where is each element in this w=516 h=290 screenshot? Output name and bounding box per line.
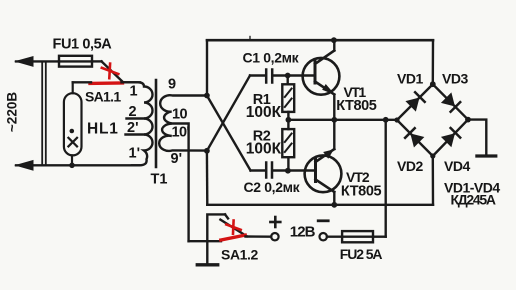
svg-text:VD1: VD1 xyxy=(397,71,423,87)
svg-text:1': 1' xyxy=(129,146,141,162)
capacitor C2 xyxy=(251,163,314,178)
node C2-R2-base junction xyxy=(285,168,291,174)
wire cross diagonal from pin9' to C1 xyxy=(207,76,250,151)
transformer T1 primary tap 2 xyxy=(127,117,145,119)
wire double vertical connector lines xyxy=(42,61,46,165)
wire SA1.2 arm to plus terminal xyxy=(246,235,272,238)
transformer T1 core xyxy=(155,80,158,167)
wire pin1 to transformer xyxy=(73,81,140,83)
terminal minus circle xyxy=(320,233,327,240)
transformer T1 secondary winding xyxy=(159,95,207,151)
switch SA1.2 red cross mark xyxy=(226,221,240,234)
switch SA1.2 contact wire xyxy=(207,214,225,263)
top rail wire xyxy=(207,39,433,42)
bottom rail wire xyxy=(207,204,433,206)
transformer T1 primary winding xyxy=(124,82,152,165)
diode bridge top rail corner down xyxy=(432,40,435,84)
svg-text:2: 2 xyxy=(129,104,137,120)
node lamp bottom junction xyxy=(69,163,75,169)
transformer T1 primary tap 2' xyxy=(126,133,145,135)
svg-text:SA1.2: SA1.2 xyxy=(221,246,259,262)
wire cross diagonal from pin9 to C2 xyxy=(207,96,251,171)
wire center tap to ground column xyxy=(189,240,221,242)
terminal arrow top ~220V xyxy=(16,57,59,67)
node VT2 collector on bottom rail xyxy=(331,202,337,208)
switch SA1.1 xyxy=(102,61,123,81)
svg-text:100К: 100К xyxy=(246,141,282,158)
ground symbol right xyxy=(477,154,496,157)
resistor R1 xyxy=(282,76,294,120)
wire minus terminal to FU2 xyxy=(327,235,342,237)
capacitor C1 xyxy=(250,70,314,83)
transistor VT1 xyxy=(303,40,340,120)
diode VD3 xyxy=(433,84,468,119)
terminal plus circle xyxy=(271,233,278,240)
diode VD1 xyxy=(397,84,433,120)
diode VD4 xyxy=(433,120,468,156)
node bridge right vertex xyxy=(465,117,471,123)
node R1-R2 emitter junction xyxy=(286,117,292,123)
svg-text:SA1.1: SA1.1 xyxy=(85,89,121,105)
label plus sign xyxy=(270,217,280,227)
ground symbol SA1.2 xyxy=(197,263,217,266)
node C1-R1-base junction xyxy=(285,73,291,79)
transistor VT2 xyxy=(305,120,342,205)
svg-text:VD3: VD3 xyxy=(442,71,468,87)
svg-text:9: 9 xyxy=(168,77,176,93)
svg-text:100К: 100К xyxy=(246,104,282,121)
node secondary pin 9' junction xyxy=(204,148,210,154)
wire bridge right vertex to ground xyxy=(468,120,486,155)
switch SA1.2 arm xyxy=(220,214,246,236)
wire pin9 junction up to top rail xyxy=(206,40,208,95)
wire minus feed vertical xyxy=(385,120,387,237)
node bridge left vertex xyxy=(394,117,399,122)
svg-text:КТ805: КТ805 xyxy=(336,98,377,114)
svg-text:FU1 0,5А: FU1 0,5А xyxy=(53,36,113,52)
svg-text:FU2 5А: FU2 5А xyxy=(340,246,383,262)
label minus sign xyxy=(318,219,328,222)
switch SA1.1 red cross mark xyxy=(102,64,119,79)
top rail tick mark xyxy=(249,37,251,40)
svg-text:КТ805: КТ805 xyxy=(341,184,382,200)
svg-text:VD4: VD4 xyxy=(444,158,470,174)
svg-text:1: 1 xyxy=(130,84,138,100)
switch SA1.2 red closed bar xyxy=(221,235,245,240)
svg-text:T1: T1 xyxy=(151,172,168,188)
svg-text:~220В: ~220В xyxy=(5,92,20,132)
node secondary pin 9 junction xyxy=(204,93,210,99)
svg-text:HL1: HL1 xyxy=(87,121,119,138)
node bridge bottom vertex xyxy=(430,153,435,158)
fuse FU1 xyxy=(59,56,102,67)
wire pin9' junction down to bottom rail xyxy=(206,151,209,205)
svg-text:10': 10' xyxy=(172,125,190,141)
wire emitter node to bridge left xyxy=(288,119,397,121)
svg-text:9': 9' xyxy=(171,151,183,167)
transformer T1 secondary center tap 10-10' xyxy=(172,124,189,242)
lamp HL1 xyxy=(64,82,82,165)
node minus feed junction xyxy=(383,117,389,123)
diode VD2 xyxy=(397,120,433,156)
node VT1 collector on top rail xyxy=(331,37,337,43)
switch SA1.1 red closed bar xyxy=(90,81,123,85)
terminal arrow bottom ~220V xyxy=(16,161,139,171)
svg-text:КД245А: КД245А xyxy=(451,192,496,208)
svg-text:10: 10 xyxy=(172,107,187,123)
resistor R2 xyxy=(282,120,294,171)
svg-text:С2 0,2мк: С2 0,2мк xyxy=(244,179,301,195)
diode bridge bottom vertex down to rail xyxy=(432,156,435,205)
svg-text:VD2: VD2 xyxy=(397,158,423,174)
node emitters junction xyxy=(331,117,337,123)
fuse FU2 xyxy=(342,231,386,242)
svg-text:12В: 12В xyxy=(290,224,316,241)
node bridge top vertex xyxy=(430,81,436,87)
svg-text:С1 0,2мк: С1 0,2мк xyxy=(243,49,300,65)
svg-text:2': 2' xyxy=(127,120,139,136)
